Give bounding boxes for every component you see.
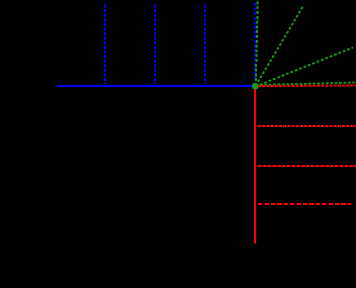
blue dashed vertical line x=105	[104, 5, 106, 85]
blue dashed vertical line x=255	[254, 3, 256, 80]
green origin dot marker	[252, 83, 259, 90]
red dashed horizontal line y=86 (right of origin)	[258, 84, 356, 87]
green dashed near-horizontal ray from origin	[256, 83, 356, 86]
red dashed horizontal line y=166	[258, 165, 356, 167]
green dashed steep ray from origin	[256, 6, 304, 87]
red dashed horizontal line y=204	[258, 203, 352, 205]
red dashed horizontal line y=126	[258, 125, 356, 127]
blue dashed vertical line x=155	[154, 5, 156, 85]
green dashed near-vertical ray from origin	[256, 0, 258, 86]
red solid vertical line below origin	[254, 89, 256, 244]
green dashed middle ray from origin	[256, 48, 354, 87]
blue dashed vertical line x=205	[204, 5, 206, 85]
blue solid horizontal baseline (left of origin)	[57, 85, 253, 87]
